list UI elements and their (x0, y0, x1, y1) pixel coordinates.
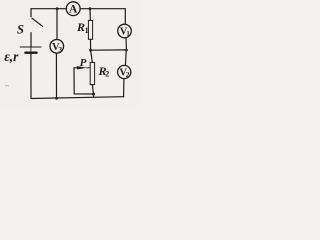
wiper arrow head (77, 66, 87, 69)
resistor R1 body (88, 20, 92, 39)
paper background (0, 0, 140, 108)
svg-text:A: A (69, 4, 78, 16)
ammeter A circle (66, 2, 80, 16)
voltmeter V2 circle (118, 65, 131, 78)
wire top right (ammeter to V1 corner) (80, 9, 125, 25)
junction node mid-left (R1/R2) (89, 49, 92, 52)
wire R2 bottom lead (92, 85, 93, 98)
battery short plate (25, 52, 36, 54)
svg-text:P: P (80, 57, 87, 69)
wiper arrow tip line (87, 67, 90, 69)
svg-text:ε,r: ε,r (4, 49, 19, 64)
stray scan mark (5, 85, 9, 86)
wire middle (R node to V node) (91, 49, 127, 51)
wire V1 bottom to junction (125, 38, 127, 50)
svg-text:1: 1 (85, 26, 89, 35)
wiper P arm (74, 68, 93, 94)
voltmeter V1 circle (118, 24, 132, 38)
wire junction to V2 top (124, 50, 127, 66)
wire R2 top lead (91, 50, 93, 62)
wire R1 bottom lead (90, 39, 92, 50)
wire V2 bottom to bottom-right corner (123, 79, 125, 97)
wire R1 top lead (89, 9, 91, 21)
wire left below switch (30, 33, 32, 47)
junction node mid-right (V1/V2) (125, 49, 128, 52)
svg-text:1: 1 (126, 31, 130, 38)
battery long plate (20, 46, 41, 48)
wire V3 branch lower (55, 53, 57, 98)
voltmeter V3 circle (50, 40, 64, 54)
svg-text:3: 3 (58, 45, 62, 54)
junction node bottom (V3/bottom wire) (55, 97, 58, 100)
battery center stem (30, 47, 32, 53)
wire top left (switch to ammeter) (31, 9, 66, 17)
switch S blade (32, 18, 43, 26)
svg-text:2: 2 (126, 70, 130, 79)
svg-text:S: S (17, 23, 24, 37)
wire V3 branch upper (56, 9, 58, 40)
resistor R2 body (90, 62, 94, 84)
svg-text:2: 2 (105, 70, 109, 79)
junction node top-left (V3 tap) (56, 7, 59, 10)
junction node top-right (R1 tap) (89, 7, 92, 10)
wire left lower + bottom (31, 53, 124, 99)
junction node wiper/R2 (92, 93, 95, 96)
